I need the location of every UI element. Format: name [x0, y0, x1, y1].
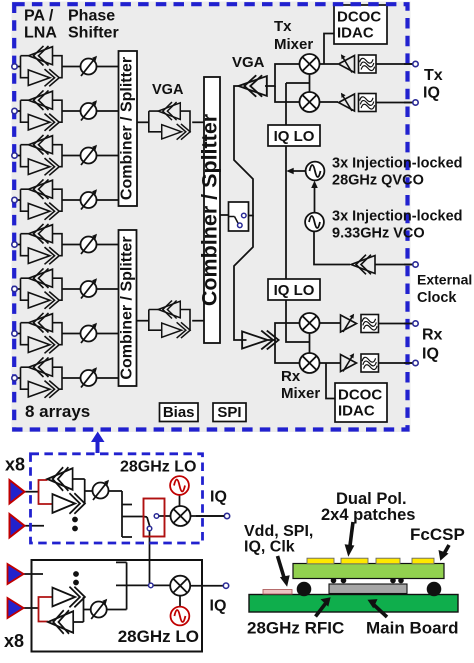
svg-text:LNA: LNA — [24, 25, 57, 42]
svg-text:FcCSP: FcCSP — [410, 525, 465, 544]
svg-text:2x4 patches: 2x4 patches — [321, 506, 415, 524]
svg-text:Phase: Phase — [68, 8, 115, 25]
svg-text:PA /: PA / — [24, 8, 54, 25]
svg-text:SPI: SPI — [217, 404, 241, 421]
svg-text:Bias: Bias — [163, 404, 195, 421]
svg-text:28GHz QVCO: 28GHz QVCO — [332, 173, 424, 189]
svg-text:Combiner / Splitter: Combiner / Splitter — [118, 236, 135, 379]
svg-text:DCOC: DCOC — [337, 9, 381, 26]
svg-text:9.33GHz VCO: 9.33GHz VCO — [332, 226, 425, 242]
svg-text:28GHz LO: 28GHz LO — [120, 459, 196, 476]
svg-text:Main Board: Main Board — [366, 619, 459, 638]
svg-text:Tx: Tx — [274, 18, 292, 35]
svg-text:VGA: VGA — [152, 82, 184, 98]
svg-text:External: External — [417, 272, 472, 288]
svg-text:Shifter: Shifter — [68, 25, 119, 42]
svg-text:Tx: Tx — [424, 67, 443, 84]
svg-text:IQ: IQ — [210, 489, 227, 506]
svg-text:IQ: IQ — [423, 85, 440, 102]
svg-text:IQ, Clk: IQ, Clk — [244, 539, 295, 556]
svg-text:Clock: Clock — [417, 290, 457, 306]
svg-text:Mixer: Mixer — [281, 385, 320, 402]
svg-text:VGA: VGA — [232, 54, 265, 71]
svg-text:28GHz LO: 28GHz LO — [118, 627, 199, 646]
svg-text:IDAC: IDAC — [338, 403, 375, 420]
svg-text:Combiner / Splitter: Combiner / Splitter — [119, 57, 136, 200]
svg-text:Rx: Rx — [422, 327, 443, 344]
svg-text:Combiner / Splitter: Combiner / Splitter — [198, 113, 222, 306]
svg-text:3x Injection-locked: 3x Injection-locked — [332, 156, 463, 172]
svg-text:x8: x8 — [4, 631, 24, 651]
svg-text:IQ: IQ — [210, 598, 227, 615]
svg-text:IDAC: IDAC — [337, 25, 374, 42]
svg-text:Mixer: Mixer — [274, 36, 313, 53]
svg-text:IQ LO: IQ LO — [274, 282, 315, 299]
svg-text:Rx: Rx — [281, 368, 301, 385]
svg-text:IQ LO: IQ LO — [274, 128, 315, 145]
svg-text:IQ: IQ — [422, 346, 439, 363]
svg-text:3x Injection-locked: 3x Injection-locked — [332, 209, 463, 225]
svg-text:8 arrays: 8 arrays — [25, 402, 90, 421]
svg-text:x8: x8 — [5, 455, 25, 475]
svg-text:28GHz RFIC: 28GHz RFIC — [247, 619, 344, 638]
svg-text:Vdd, SPI,: Vdd, SPI, — [244, 523, 313, 540]
svg-text:DCOC: DCOC — [338, 387, 382, 404]
